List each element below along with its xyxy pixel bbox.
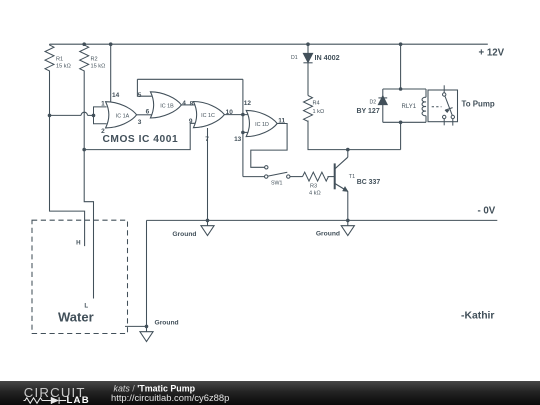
svg-text:T1: T1: [349, 174, 355, 180]
svg-text:- 0V: - 0V: [478, 205, 496, 216]
wire R2 lower lead to junction: [83, 71, 85, 150]
svg-text:H: H: [76, 240, 81, 247]
node bracket input: [92, 114, 96, 118]
svg-text:R2: R2: [91, 56, 98, 62]
svg-text:R4: R4: [313, 100, 320, 106]
relay contact pins and lever: [432, 85, 455, 125]
svg-text:3: 3: [138, 119, 142, 126]
svg-text:13: 13: [234, 136, 242, 143]
svg-text:Ground: Ground: [316, 231, 340, 238]
wire input to IC1A (with hop over R2 line): [50, 114, 82, 116]
diode D1: [303, 53, 312, 62]
logo diode triangle: [51, 397, 59, 404]
svg-text:2: 2: [101, 128, 105, 135]
node rail-R2: [82, 42, 86, 46]
svg-text:8: 8: [190, 101, 194, 108]
svg-text:15 kΩ: 15 kΩ: [91, 64, 106, 70]
wire relay coil top from rail: [400, 44, 402, 89]
svg-text:BC 337: BC 337: [357, 179, 381, 186]
wire IC1B pin5 riser: [137, 79, 151, 96]
svg-text:Ground: Ground: [172, 231, 196, 238]
svg-text:IC 1A: IC 1A: [116, 113, 130, 119]
water sensor dashed box: [32, 220, 128, 333]
wire IC1C pin7 to ground rail: [207, 128, 209, 220]
node pin13: [241, 131, 245, 135]
wire IC1C output to IC1D pin12: [224, 114, 247, 116]
svg-text:9: 9: [189, 118, 193, 125]
IC1A input bracket (pins 1,2): [94, 107, 107, 124]
svg-text:6: 6: [146, 109, 150, 116]
wire hop to gate bracket: [88, 114, 94, 116]
svg-text:R3: R3: [310, 184, 317, 190]
wire feedback top run to IC1D column: [137, 78, 243, 80]
svg-text:5: 5: [138, 92, 142, 99]
svg-text:10: 10: [226, 109, 234, 116]
NOR gate U1D (IC 1D): [246, 110, 277, 136]
ground (under IC pin 7): [201, 220, 214, 235]
NOR gate U1A (IC 1A): [106, 102, 137, 128]
NOR gate U1B (IC 1B): [150, 92, 181, 118]
resistor R2: [80, 44, 89, 71]
svg-text:SW1: SW1: [271, 181, 283, 187]
wire feedback node to IC1C pin9: [84, 123, 196, 149]
wire R1 lower lead to junction: [49, 71, 51, 116]
wire 0V rail left drop to water ground: [146, 220, 148, 326]
resistor R4: [304, 96, 313, 122]
svg-text:IC 1D: IC 1D: [255, 122, 269, 128]
node rail-pin14: [109, 42, 113, 46]
wire R2 node down branch to L probe: [84, 150, 93, 299]
svg-text:1: 1: [101, 100, 105, 107]
IC1D output open terminal: [265, 166, 268, 169]
svg-text:D1: D1: [291, 55, 298, 61]
svg-text:IC 1C: IC 1C: [201, 113, 215, 119]
svg-text:-Kathir: -Kathir: [461, 311, 494, 322]
svg-text:Ground: Ground: [155, 320, 179, 327]
wire R4 bottom to collector node run: [308, 121, 401, 150]
relay coil windings: [422, 97, 426, 116]
svg-text:11: 11: [278, 118, 285, 125]
relay contact box: [428, 90, 458, 122]
node pin12: [241, 113, 245, 117]
svg-text:IN 4002: IN 4002: [315, 53, 340, 62]
wire water box to ground node: [125, 325, 147, 327]
wire 0V rail: [147, 219, 498, 221]
svg-text:IC 1B: IC 1B: [160, 103, 174, 109]
switch SW1: [265, 172, 290, 178]
node R1-input: [48, 114, 52, 118]
node gnd2: [346, 219, 350, 223]
wire T1 collector riser: [347, 150, 349, 158]
svg-text:RLY1: RLY1: [402, 104, 417, 110]
svg-text:4: 4: [182, 100, 186, 107]
svg-text:Water: Water: [58, 309, 94, 324]
svg-text:BY 127: BY 127: [357, 108, 380, 115]
svg-text:LAB: LAB: [67, 395, 90, 405]
svg-text:14: 14: [112, 92, 120, 99]
wire IC1D pin13 stub: [243, 131, 248, 133]
resistor R3: [303, 172, 329, 181]
logo resistor-diode squiggle: [24, 397, 67, 404]
svg-text:15 kΩ: 15 kΩ: [56, 64, 71, 70]
svg-text:7: 7: [205, 136, 209, 143]
svg-text:To Pump: To Pump: [462, 99, 495, 108]
svg-text:12: 12: [244, 100, 252, 107]
wire R1 node down-left branch to H probe: [50, 115, 85, 246]
resistor R1: [45, 44, 54, 71]
transistor Q1 (T1 BC337): [335, 157, 348, 191]
wire T1 emitter drop to 0V rail: [347, 191, 349, 220]
wire SW1 feed: [243, 176, 265, 178]
wire D1 cathode to R4: [307, 63, 309, 96]
svg-text:L: L: [84, 302, 88, 309]
svg-text:4 kΩ: 4 kΩ: [309, 191, 321, 197]
node rail-D1: [306, 42, 310, 46]
wire IC1A output to IC1B pin6: [137, 114, 152, 116]
node gnd1: [206, 219, 210, 223]
ground (under T1 emitter): [341, 220, 354, 235]
wire hop arc over R2: [81, 112, 87, 115]
node R2-feedback: [82, 148, 86, 152]
ground (water sensor return): [140, 326, 153, 341]
node gnd3: [145, 325, 149, 329]
svg-text:D2: D2: [370, 100, 377, 106]
svg-text:+ 12V: + 12V: [479, 47, 505, 58]
svg-text:CMOS IC 4001: CMOS IC 4001: [103, 134, 179, 145]
svg-text:http://circuitlab.com/cy6z88p: http://circuitlab.com/cy6z88p: [111, 392, 229, 403]
footer bar: [0, 381, 540, 405]
wire relay coil bottom drop: [400, 122, 402, 149]
relay RLY1 coil box: [383, 89, 426, 122]
node relay top: [399, 87, 403, 91]
svg-text:R1: R1: [56, 56, 63, 62]
node rail-relay: [399, 42, 403, 46]
wire SW1 to R3: [290, 176, 303, 178]
wire R3 to T1 base: [328, 176, 335, 178]
wire pin14 supply drop: [110, 44, 112, 104]
wire IC1D input column pins 12,13 down to SW1: [242, 79, 244, 176]
svg-text:1 kΩ: 1 kΩ: [313, 109, 325, 115]
node collector: [346, 148, 350, 152]
node relay bottom: [399, 121, 403, 125]
NOR gate U1C (IC 1C): [193, 102, 224, 128]
wire D1 anode from rail: [307, 44, 309, 53]
diode D2 (on relay left edge): [378, 96, 387, 105]
wire IC1D output pin11 loop to open terminal: [251, 124, 287, 168]
wire IC1B output to IC1C pin8: [181, 104, 195, 106]
wire +12V top rail: [50, 43, 488, 45]
